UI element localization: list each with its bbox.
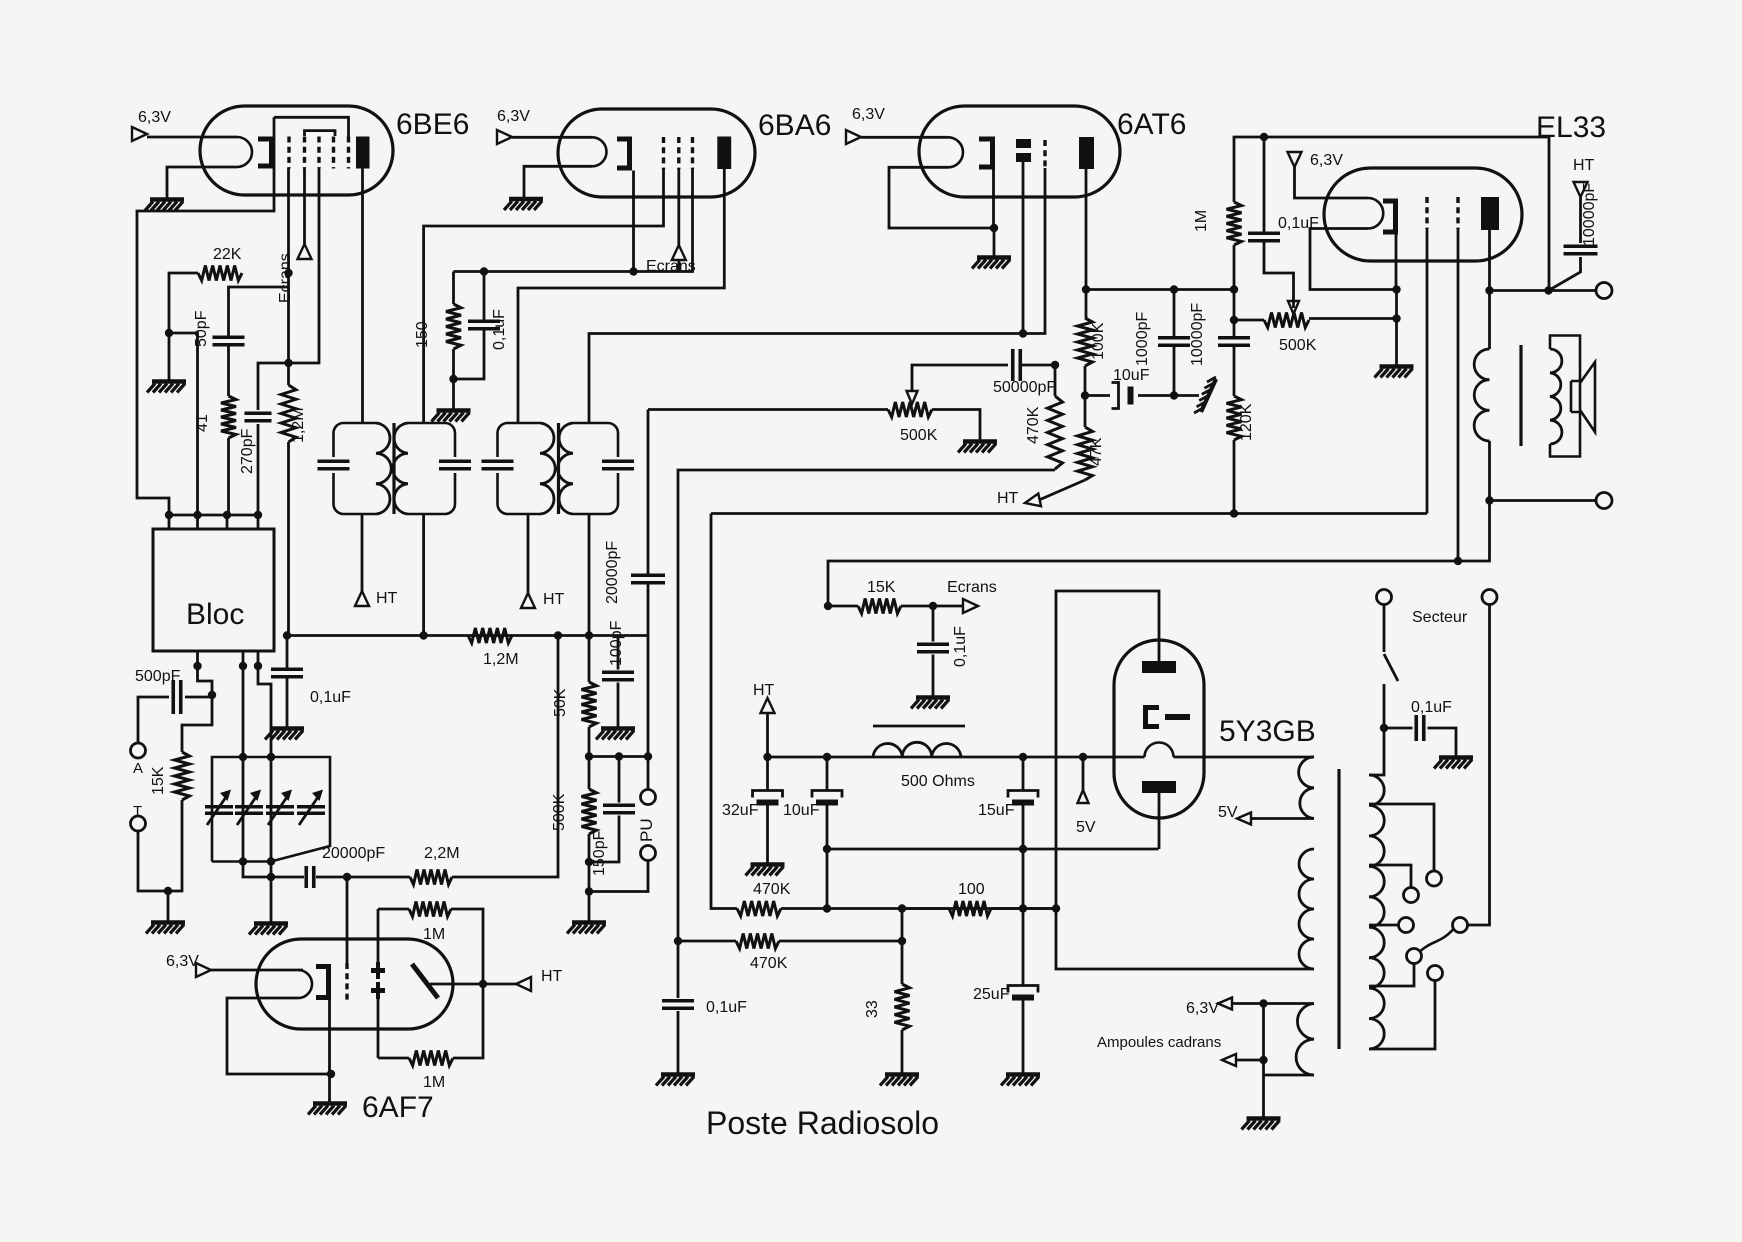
- wire PT tap B: [1369, 865, 1411, 888]
- node 500pF junction: [208, 691, 216, 699]
- wire 1M top loop: [378, 909, 483, 984]
- label V4 EL33: [1536, 111, 1606, 144]
- label 500K tone: [1279, 337, 1317, 354]
- wire 470K bottom to HT bus: [1054, 469, 1057, 470]
- grid g4 V1 (dashed): [332, 137, 335, 169]
- capacitor 0,1uF AVC: [271, 669, 303, 677]
- wire selector curve: [1421, 929, 1454, 951]
- svg-text:15K: 15K: [150, 766, 167, 795]
- wire tone pot right: [1309, 317, 1397, 320]
- wire 0,1uF AVC stubs: [286, 636, 289, 728]
- wire Bloc-b to gang: [242, 666, 245, 757]
- wire 470K top stub: [1054, 365, 1057, 396]
- wire 0,1uF EL33 top stub: [1263, 137, 1266, 234]
- heater bracket V2: [617, 137, 632, 171]
- wire divider tap bus: [589, 755, 648, 758]
- label 470K lower: [750, 955, 788, 972]
- node V2 pin/cathode junction: [629, 267, 637, 275]
- svg-text:2,2M: 2,2M: [424, 845, 460, 862]
- wire V1 g1 pin down: [287, 169, 290, 364]
- potentiometer 500K volume: [888, 402, 932, 417]
- label Ecrans V2: [646, 258, 696, 275]
- resistor 1,2M (vertical): [281, 363, 296, 442]
- resistor 100: [949, 901, 991, 916]
- terminal tap A: [1427, 871, 1442, 886]
- wire V1 g3 pin down: [289, 169, 320, 364]
- svg-text:6,3V: 6,3V: [852, 106, 885, 123]
- capacitor 25uF electrolytic: [1008, 986, 1038, 1001]
- label Ecrans V1 (rotated): [277, 253, 294, 303]
- wire 6BA6 cathode bus: [454, 169, 693, 304]
- label 500K divider (rotated): [551, 793, 568, 831]
- label HT IFT2: [543, 591, 565, 608]
- label 100: [958, 881, 985, 898]
- wire 6,3V winding bottom: [1264, 1004, 1315, 1118]
- label 470K upper: [753, 881, 791, 898]
- label 50000pF: [993, 379, 1056, 396]
- resistor 1,2M AVC: [468, 628, 512, 643]
- terminal A: [131, 743, 146, 758]
- wire main B+ rail left: [768, 756, 1145, 759]
- label V5 5Y3GB: [1219, 715, 1316, 748]
- node 6,3V winding bottom junction: [1259, 1056, 1267, 1064]
- svg-text:270pF: 270pF: [239, 428, 256, 474]
- node PU/coupling node: [644, 752, 652, 760]
- wire V5 bottom plate down: [1158, 793, 1161, 849]
- node EL33 heater node: [1392, 285, 1400, 293]
- svg-text:470K: 470K: [753, 881, 791, 898]
- capacitor 270pF: [245, 413, 272, 421]
- speaker cone: [1580, 362, 1595, 432]
- wire 50000pF to 470K: [1021, 364, 1055, 367]
- wire Bloc bottom stub c: [257, 651, 260, 666]
- wire 32uF to ground: [766, 802, 769, 863]
- ground V2 filament: [504, 199, 543, 210]
- label 500K volume: [900, 427, 938, 444]
- coil PT secondary HV: [1299, 849, 1314, 969]
- node 100 to 15uF leg: [1019, 904, 1027, 912]
- wire 6,3V to V2 filament: [512, 136, 592, 139]
- node cathode bus 15uF: [1019, 845, 1027, 853]
- capacitor 10000pF HT: [1564, 246, 1598, 254]
- wire V3 plate to EL33 grid RC: [1086, 288, 1234, 291]
- node gang top c: [267, 753, 275, 761]
- capacitor IFT1 primary cap: [318, 461, 350, 469]
- node dropper 33 leg: [898, 904, 906, 912]
- wire detector to volume pot: [648, 408, 888, 411]
- wire 6,3V to V1 filament: [147, 136, 237, 139]
- wire 15K left stub: [828, 605, 858, 608]
- node OT bottom junction: [1485, 496, 1493, 504]
- label 1,2M AVC: [483, 651, 519, 668]
- wire 0,1uF bottom stub: [454, 329, 485, 380]
- label T: [133, 803, 142, 820]
- svg-text:150pF: 150pF: [591, 830, 608, 876]
- capacitor 50000pF: [1013, 349, 1021, 381]
- svg-text:6,3V: 6,3V: [138, 109, 171, 126]
- wire 470K lower right: [779, 940, 902, 943]
- speaker frame: [1550, 336, 1580, 457]
- label 0,1uF output: [706, 999, 747, 1016]
- capacitor 20000pF detector: [631, 575, 665, 583]
- wire HT arrow stem: [766, 712, 769, 757]
- wire 50K top stub: [588, 636, 591, 683]
- wire V1 heater pin to bus: [137, 117, 274, 515]
- wire 6,3V EL33 to filament: [1295, 167, 1369, 198]
- label 2,2M: [424, 845, 460, 862]
- wire AVC 100pF jog: [617, 636, 620, 670]
- label Secteur: [1412, 609, 1468, 626]
- capacitor 15uF electrolytic: [1008, 791, 1038, 806]
- wire IFT1 sec ground stem: [452, 379, 455, 409]
- wire V6 cathode stem: [328, 1000, 331, 1102]
- filament hairpin V1: [237, 137, 252, 167]
- svg-text:10uF: 10uF: [1113, 367, 1150, 384]
- svg-text:1M: 1M: [423, 926, 445, 943]
- vacuum tube V4 EL33 envelope: [1324, 168, 1522, 261]
- wire EL33 filament return: [1310, 229, 1397, 290]
- label 500 Ohms: [901, 773, 975, 790]
- svg-text:0,1uF: 0,1uF: [310, 689, 351, 706]
- label 1M (rotated): [1193, 210, 1210, 232]
- wire PT tap E: [1369, 964, 1414, 987]
- coil IFT2 secondary: [558, 423, 573, 514]
- wire Bloc bottom stub a: [196, 651, 199, 666]
- capacitor 50pF: [213, 337, 245, 345]
- svg-text:50000pF: 50000pF: [993, 379, 1056, 396]
- ground 0,1uF output: [656, 1075, 695, 1086]
- arrow 6,3V winding: [1218, 998, 1232, 1010]
- node 5V stem junction: [1079, 753, 1087, 761]
- node V3 heater ground node: [990, 224, 998, 232]
- capacitor 0,1uF mains: [1416, 715, 1424, 741]
- svg-text:50K: 50K: [552, 688, 569, 717]
- wire 15K right to arrow: [901, 605, 964, 608]
- arrow Ampoules cadrans: [1222, 1054, 1236, 1066]
- svg-text:1M: 1M: [423, 1074, 445, 1091]
- variable capacitor C-gang1: [205, 790, 233, 826]
- wire Bloc pin2 stub: [196, 515, 199, 529]
- svg-text:33: 33: [864, 1000, 881, 1018]
- svg-text:Ecrans: Ecrans: [646, 258, 696, 275]
- wire 100pF to ground: [617, 683, 620, 728]
- svg-text:100pF: 100pF: [608, 620, 625, 666]
- arrow 5V left: [1078, 790, 1089, 803]
- resistor 15K antenna (vertical): [175, 752, 190, 800]
- wire 6,3V to V3 filament: [861, 136, 948, 139]
- label Ampoules cadrans: [1097, 1034, 1221, 1051]
- label 32uF: [722, 802, 759, 819]
- wire V1 filament return: [167, 167, 237, 198]
- filament hairpin EL33: [1368, 198, 1383, 229]
- ground antenna: [146, 923, 185, 934]
- label 0,1uF AVC: [310, 689, 351, 706]
- arrow wiper 500K volume: [907, 391, 918, 404]
- label 6,3V heater V2: [497, 108, 530, 125]
- svg-text:HT: HT: [376, 590, 398, 607]
- wire V1 plate to IFT1: [361, 169, 364, 424]
- node gang bottom b: [239, 857, 247, 865]
- capacitor 0,1uF output: [662, 1001, 694, 1009]
- label 47K (rotated): [1088, 437, 1105, 466]
- svg-text:6,3V: 6,3V: [497, 108, 530, 125]
- wire 1000pF bottom to slant ground: [1174, 394, 1199, 397]
- capacitor 0,1uF 6BA6 cathode: [468, 321, 500, 329]
- capacitor 100pF: [602, 672, 634, 680]
- wire junction down to 15K: [182, 695, 212, 752]
- node 470K lower left junction: [674, 937, 682, 945]
- node 150pF tap: [615, 752, 623, 760]
- variable capacitor C-gang4: [297, 790, 325, 826]
- label V3 6AT6: [1117, 108, 1186, 141]
- arrow HT IFT1: [355, 591, 369, 606]
- capacitor IFT1 secondary cap: [439, 461, 471, 469]
- wire 120K bottom to bus: [1233, 440, 1236, 514]
- IFT2 secondary tank frame: [573, 423, 618, 514]
- arrow Ecrans out: [963, 599, 978, 613]
- label 500pF: [135, 668, 181, 685]
- resistor 2,2M: [410, 870, 452, 885]
- wire 5V stem: [1082, 757, 1085, 790]
- node gang bottom c: [267, 857, 275, 865]
- grid g2 V1 (dashed): [303, 137, 306, 169]
- wire 500K bottom: [588, 834, 591, 921]
- label 0,1uF 6BA6 (rotated): [491, 309, 508, 350]
- resistor 1M bottom: [409, 1051, 453, 1066]
- arrow 6,3V V2: [497, 130, 512, 144]
- wire V6 target line: [377, 909, 380, 1058]
- label 50K (rotated): [552, 688, 569, 717]
- anode plate V1: [356, 137, 370, 169]
- heater bracket V6: [316, 964, 331, 1000]
- node EL33 cathode/pot junction: [1392, 314, 1400, 322]
- vacuum tube V1 6BE6 envelope: [200, 106, 393, 195]
- svg-text:10uF: 10uF: [783, 802, 820, 819]
- IFT2 core: [557, 423, 560, 514]
- label 10000pF coupling (rotated): [1189, 303, 1206, 366]
- wire detector line down: [647, 410, 650, 757]
- label Poste Radiosolo: [706, 1105, 939, 1141]
- wire OT bottom to terminal: [1490, 499, 1597, 502]
- ground 33: [880, 1075, 919, 1086]
- wire 10uF to 1000pF node: [1138, 394, 1174, 397]
- wire 15K bottom: [138, 800, 182, 891]
- label PU (rotated): [637, 818, 656, 842]
- wire 10uF feed: [1085, 394, 1110, 397]
- svg-text:6,3V: 6,3V: [1186, 1000, 1219, 1017]
- wire 2,2M right: [452, 636, 558, 878]
- wire EL33 heater pin down: [1395, 235, 1398, 290]
- wire EL33 cathode ground stem: [1395, 290, 1398, 366]
- node V6 HT junction: [479, 980, 487, 988]
- terminal Secteur right: [1482, 590, 1497, 605]
- label 50pF (rotated): [193, 310, 210, 347]
- arrow HT filter: [761, 698, 775, 713]
- node divider tap: [585, 752, 593, 760]
- node Bloc bottom b: [239, 662, 247, 670]
- wire V2 heater pin down: [632, 171, 635, 272]
- grid g2 EL33 (dashed): [1456, 197, 1459, 229]
- wire 500pF to junction: [185, 696, 212, 699]
- node Bloc pin4: [254, 511, 262, 519]
- IFT1 primary tank frame: [334, 423, 377, 514]
- node Bloc bottom a: [193, 662, 201, 670]
- wire gang bottom bus: [243, 862, 304, 878]
- arrow 6,3V EL33: [1288, 152, 1302, 167]
- node 10000pF HT junction: [1544, 286, 1552, 294]
- vacuum tube V5 5Y3GB envelope: [1114, 640, 1204, 818]
- label 270pF (rotated): [239, 428, 256, 474]
- svg-text:6AT6: 6AT6: [1117, 108, 1186, 141]
- wire HT bus upper: [711, 512, 1427, 515]
- wire Bloc pin3 stub: [226, 515, 229, 529]
- terminal selector D: [1453, 918, 1468, 933]
- filament hairpin V2: [592, 137, 607, 166]
- wire 100K to 47K: [1084, 366, 1087, 400]
- wire HT bus mid: [678, 470, 1055, 941]
- switch mains: [1384, 605, 1398, 729]
- resistor 22K: [198, 266, 242, 281]
- label HT IFT1: [376, 590, 398, 607]
- node grid network junction: [284, 359, 292, 367]
- wire A terminal to 500pF: [138, 697, 169, 743]
- wire grid node to 270pF: [258, 363, 289, 410]
- diode plate V3 upper: [1016, 139, 1031, 148]
- resistor 41 (vertical): [221, 396, 236, 438]
- capacitor 10000pF coupling: [1218, 338, 1250, 346]
- wire IFT2 primary bottom to HT: [527, 514, 530, 593]
- capacitor 150pF: [603, 805, 635, 813]
- svg-text:50pF: 50pF: [193, 310, 210, 347]
- wire rectifier cathode bus: [827, 848, 1159, 851]
- label 6,3V heater V6: [166, 953, 199, 970]
- svg-text:A: A: [133, 760, 143, 777]
- wire branch to Bloc pin1: [169, 333, 198, 515]
- ground divider: [567, 923, 606, 934]
- resistor 1M top: [409, 902, 451, 917]
- wire 33 to ground: [901, 1030, 904, 1073]
- IFT2 primary tank frame: [498, 423, 541, 514]
- filament hairpin V6: [298, 970, 312, 998]
- arrow HT EL33: [1574, 182, 1588, 197]
- label 150 (rotated): [414, 321, 431, 348]
- svg-text:Ampoules cadrans: Ampoules cadrans: [1097, 1034, 1221, 1051]
- label 6,3V winding: [1186, 1000, 1219, 1017]
- svg-text:500pF: 500pF: [135, 668, 181, 685]
- resistor 1M (vertical): [1227, 202, 1242, 245]
- wire 41 to Bloc pin3: [227, 438, 230, 515]
- label 0,1uF mains: [1411, 699, 1452, 716]
- node Bloc bottom c: [254, 662, 262, 670]
- node EL33 screen on bus: [1454, 557, 1462, 565]
- ground EL33 cathode: [1375, 367, 1414, 378]
- OT core: [1519, 345, 1522, 446]
- node detector junction: [343, 873, 351, 881]
- arrow HT AF: [1025, 494, 1041, 507]
- wire EL33 feedback bus: [1234, 137, 1549, 291]
- label 6,3V heater V1: [138, 109, 171, 126]
- tuning gang frame: [212, 757, 330, 862]
- wire volume pot right to ground: [932, 410, 980, 441]
- label 33 (rotated): [864, 1000, 881, 1018]
- wire tone pot left: [1234, 319, 1264, 322]
- arrow 5V right: [1237, 813, 1251, 825]
- wire V3 plate down: [1085, 169, 1088, 318]
- label Ecrans out: [947, 579, 997, 596]
- ground 0,1uF Ecrans: [911, 698, 950, 709]
- capacitor 10uF electrolytic: [1112, 383, 1134, 409]
- ground 100pF: [596, 729, 635, 740]
- speaker voice coil: [1571, 381, 1580, 412]
- svg-text:1,2M: 1,2M: [290, 407, 307, 443]
- node 470K top: [1051, 361, 1059, 369]
- svg-text:T: T: [133, 803, 142, 820]
- grid g2 V2 (dashed): [677, 137, 680, 169]
- label 120K (rotated): [1238, 403, 1255, 441]
- node Bloc pin2: [193, 511, 201, 519]
- svg-text:EL33: EL33: [1536, 111, 1606, 144]
- svg-text:100K: 100K: [1090, 322, 1107, 360]
- label 150pF (rotated): [591, 830, 608, 876]
- wire 10000pF top stub: [1233, 290, 1236, 339]
- wire 1000pF top stub: [1173, 290, 1176, 339]
- label V1 6BE6: [396, 108, 469, 141]
- ground slanted AF: [1194, 377, 1216, 413]
- arrow HT IFT2: [521, 593, 535, 608]
- wire V6 grid from detector: [346, 877, 349, 963]
- coil OT secondary: [1550, 349, 1562, 444]
- label 0,1uF EL33: [1278, 215, 1319, 232]
- resistor 33 (vertical): [895, 984, 910, 1030]
- wire Bloc pin4 stub: [257, 515, 260, 529]
- coil PT primary: [1369, 775, 1384, 1049]
- svg-text:0,1uF: 0,1uF: [491, 309, 508, 350]
- node 15uF junction: [1019, 753, 1027, 761]
- ground 0,1uF AVC: [265, 729, 304, 740]
- svg-text:Bloc: Bloc: [186, 598, 244, 631]
- coil PT secondary 6V: [1296, 1004, 1314, 1076]
- svg-text:20000pF: 20000pF: [604, 541, 621, 604]
- anode plate V3: [1079, 137, 1094, 169]
- grid g3 V1 (dashed): [317, 137, 320, 169]
- PT core: [1337, 769, 1340, 1049]
- grid g1 V1 (dashed): [287, 137, 290, 169]
- wire V2 plate to IFT2: [518, 169, 724, 423]
- ground 25uF: [1001, 1075, 1040, 1086]
- wire selector D to mains right: [1468, 605, 1490, 926]
- node 33 top junction: [898, 937, 906, 945]
- label 100K (rotated): [1090, 322, 1107, 360]
- wire 5V right arrow to winding: [1251, 817, 1314, 820]
- wire coupling node to PU upper: [647, 757, 650, 790]
- wire 10uF leg down: [826, 849, 829, 909]
- label 25uF: [973, 986, 1010, 1003]
- svg-text:HT: HT: [541, 968, 563, 985]
- terminal tap E: [1407, 949, 1422, 964]
- grid strap inner V1: [305, 131, 336, 136]
- heater bracket V3: [979, 137, 995, 170]
- svg-text:6,3V: 6,3V: [1310, 152, 1343, 169]
- node AVC left end: [283, 631, 291, 639]
- label 10000pF HT (rotated): [1581, 183, 1598, 246]
- label 0,1uF Ecrans (rotated): [952, 626, 969, 667]
- svg-text:Poste Radiosolo: Poste Radiosolo: [706, 1105, 939, 1141]
- wire Bloc pin1 stub: [168, 515, 171, 529]
- grid g5 V1 (dashed): [347, 137, 350, 169]
- node tone pot left junction: [1230, 316, 1238, 324]
- wire 25uF to ground: [1022, 997, 1025, 1073]
- vacuum tube V2 6BA6 envelope: [558, 109, 755, 197]
